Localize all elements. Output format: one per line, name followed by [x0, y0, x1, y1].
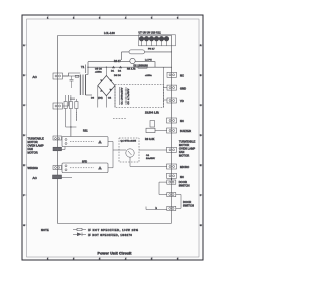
connector NC1 [167, 72, 177, 77]
transistor Q4 dashed box [119, 138, 139, 162]
svg-text:TURNTABLE: TURNTABLE [179, 140, 195, 144]
wire link to Q4 [113, 149, 126, 151]
svg-text:SWITCH: SWITCH [183, 204, 194, 208]
relay RY2 internals [70, 167, 94, 169]
buzzer BZ1 [146, 128, 155, 132]
svg-text:Q4 GTD+6405: Q4 GTD+6405 [121, 141, 137, 143]
svg-text:R21: R21 [83, 130, 88, 133]
svg-text:TURNTABLE: TURNTABLE [28, 137, 44, 141]
door switch S1 [167, 180, 176, 184]
wire choke left lead [122, 52, 130, 60]
relay RY1 internals [70, 141, 94, 143]
svg-text:WIRING: WIRING [28, 166, 38, 170]
wire bus to NC1 [171, 67, 173, 72]
svg-text:AC: AC [33, 75, 38, 79]
relay RY1 coil pins [65, 139, 67, 141]
relay RY2 coil pins [65, 165, 67, 167]
svg-text:FAN: FAN [179, 150, 184, 154]
connector NC3 [167, 173, 177, 178]
connector CN3 pins [55, 138, 57, 140]
diode D4 [119, 66, 122, 69]
svg-text:OVEN LAMP: OVEN LAMP [179, 147, 195, 151]
wire door loop left [159, 182, 167, 194]
connector CN2 AC input [53, 103, 63, 109]
node junction lower-left [66, 127, 77, 137]
svg-text:PN 17: PN 17 [148, 49, 155, 51]
wire MICRO line [130, 157, 167, 166]
zener D7 string dashed [75, 112, 77, 121]
connector CN1 AC input [53, 73, 63, 79]
wire bridge bottom leg [105, 96, 107, 108]
svg-text:FAN: FAN [28, 147, 33, 151]
connector NC2 [167, 118, 177, 123]
connector TT motor [167, 147, 177, 152]
wire b hook [145, 207, 147, 210]
resistor R2 [69, 102, 72, 109]
svg-text:+100u: +100u [95, 71, 102, 73]
capacitor C1 [119, 87, 121, 105]
svg-text:NOTE: NOTE [41, 228, 49, 232]
svg-text:SWITCH: SWITCH [179, 184, 190, 188]
svg-text:NC: NC [180, 74, 184, 78]
svg-text:10u/50V: 10u/50V [146, 158, 155, 160]
door switch S2 [167, 193, 176, 197]
wire fuse drop [71, 76, 73, 88]
connector CN1 pins [55, 75, 57, 77]
wire CN1 to T1 [63, 75, 81, 77]
wire T1 secondary top [85, 65, 87, 74]
svg-text:C9 C6: C9 C6 [95, 68, 102, 70]
IC row enclosure box [139, 35, 176, 46]
transistor Q4 symbol [126, 149, 134, 157]
wire T1 primary top [63, 73, 81, 76]
svg-text:OVEN LAMP: OVEN LAMP [28, 144, 44, 148]
wire choke right lead [145, 51, 172, 53]
paper background [22, 15, 203, 260]
border tick marks right [199, 45, 203, 225]
connector CN2 pins [55, 105, 57, 107]
svg-text:MOTOR: MOTOR [28, 151, 38, 155]
connector CN5 [53, 166, 62, 170]
junction dot C [106, 67, 107, 68]
inductor L2 choke [129, 50, 145, 54]
wire CN2 to primary [63, 95, 69, 106]
door switch S3 [167, 206, 176, 210]
capacitor C3 [125, 87, 127, 105]
svg-text:R5 4.7k: R5 4.7k [127, 69, 136, 71]
wire riser from T1 [86, 62, 89, 75]
wire base line [88, 61, 130, 63]
wire filter to VD connector [164, 99, 168, 101]
connector MICRO [167, 164, 177, 169]
border grid letters right [200, 44, 202, 227]
svg-text:C3 4.7u/50V: C3 4.7u/50V [128, 88, 130, 104]
wire left bus [57, 36, 59, 224]
diode D1 [112, 66, 115, 69]
svg-text:Power Unit Circuit: Power Unit Circuit [98, 251, 133, 255]
wire T1 secondary bottom [86, 94, 93, 96]
connector CN5 pins [55, 167, 57, 169]
connector GND [167, 85, 177, 90]
border tick marks left [22, 45, 27, 225]
dashed box DC filter [115, 85, 164, 108]
svg-text:D8 D6: D8 D6 [114, 75, 121, 77]
wire bridge left leg [97, 86, 99, 108]
wire bridge top [105, 67, 107, 75]
svg-text:T1: T1 [81, 65, 85, 69]
svg-text:LCL-L63: LCL-L63 [104, 31, 115, 35]
resistor R7 [150, 121, 155, 128]
svg-text:DOOR: DOOR [179, 180, 187, 184]
svg-text:SFD: SFD [82, 161, 87, 164]
wire b stub [146, 209, 167, 211]
wire Q1 out [135, 62, 155, 67]
svg-text:MICRO: MICRO [180, 165, 189, 169]
svg-text:IF NOT SPECIFIED, 1/4W ±5%: IF NOT SPECIFIED, 1/4W ±5% [88, 228, 139, 232]
svg-text:NC: NC [180, 175, 184, 179]
wire AC line horizontal [88, 66, 172, 68]
svg-text:DOOR: DOOR [183, 200, 191, 204]
relay RY1 diode [98, 140, 102, 144]
resistor R1 [64, 102, 67, 109]
svg-text:NC: NC [180, 119, 184, 123]
svg-text:MOTOR: MOTOR [179, 154, 189, 158]
connector CN3 [53, 136, 62, 140]
note resistor symbol [73, 229, 86, 231]
wire regulator leads [142, 41, 167, 46]
resistor R5 [138, 66, 147, 68]
wire top bus [58, 35, 172, 37]
transformer T1 core [82, 75, 83, 96]
outer border frame [22, 15, 203, 260]
wire TT motor line [139, 149, 167, 151]
wire filter to GND connector [164, 87, 168, 89]
svg-text:C1 1000u/25V: C1 1000u/25V [122, 87, 124, 104]
connector CN4 filled [53, 147, 62, 151]
capacitor C8 [70, 98, 75, 100]
bridge diode arrows [100, 79, 112, 92]
transistor Q1 [130, 58, 135, 63]
svg-text:+100u: +100u [145, 75, 152, 77]
svg-text:R6 3.3K: R6 3.3K [145, 138, 155, 141]
border grid numbers top [47, 18, 179, 20]
junction dot A [70, 126, 71, 127]
relay RY1 [62, 137, 108, 147]
inner border frame [27, 19, 200, 257]
svg-text:L4 PH: L4 PH [145, 59, 152, 61]
relay RY2 diode [98, 166, 102, 170]
wire CN4 tap [62, 147, 66, 150]
wire door chain vertical [170, 178, 172, 223]
IC U7 regulator row [139, 36, 169, 41]
svg-text:MOTOR: MOTOR [179, 143, 189, 147]
border grid letters left [23, 44, 25, 227]
connector BUZZER [167, 128, 177, 133]
svg-text:U7 U8 U9 U10 U11: U7 U8 U9 U10 U11 [139, 32, 162, 35]
wire R1 string [66, 95, 77, 127]
relay RY2 [62, 163, 108, 173]
svg-text:IF NOT SPECIFIED, 1SS270: IF NOT SPECIFIED, 1SS270 [88, 233, 132, 237]
svg-text:AC: AC [33, 176, 38, 180]
bridge rectifier DB1 [98, 76, 115, 96]
wire door loop right [176, 195, 181, 209]
connector CN6 filled [53, 175, 62, 179]
wire dashed stub [113, 118, 127, 120]
wire bus right of filter [163, 67, 165, 107]
fuse F1 [75, 75, 79, 77]
zener D7 [75, 102, 78, 109]
transformer T1 secondary winding [85, 75, 87, 96]
wire bottom bus [58, 223, 172, 225]
wire BZ1 to connector [155, 129, 167, 131]
wire bridge right leg [114, 86, 116, 108]
transistor Q4 arrow [128, 151, 132, 155]
border grid numbers bottom [47, 259, 179, 261]
wire right bus [171, 36, 173, 181]
svg-text:VD: VD [180, 99, 184, 103]
connector VD [167, 98, 177, 103]
svg-text:(D2): (D2) [98, 98, 103, 100]
svg-text:GND: GND [180, 86, 186, 90]
wire CN6 tap [62, 176, 73, 178]
note diode symbol [73, 233, 86, 235]
junction dot B [87, 67, 88, 68]
transformer T1 primary winding [79, 75, 81, 96]
border tick marks top [48, 15, 178, 19]
svg-text:23.504 1.5k: 23.504 1.5k [145, 112, 159, 115]
border tick marks bottom [48, 257, 178, 260]
wire RY right link [108, 142, 113, 168]
svg-text:MOTOR: MOTOR [28, 140, 38, 144]
svg-text:BUZZER: BUZZER [180, 129, 191, 133]
capacitor C6 [70, 80, 74, 82]
